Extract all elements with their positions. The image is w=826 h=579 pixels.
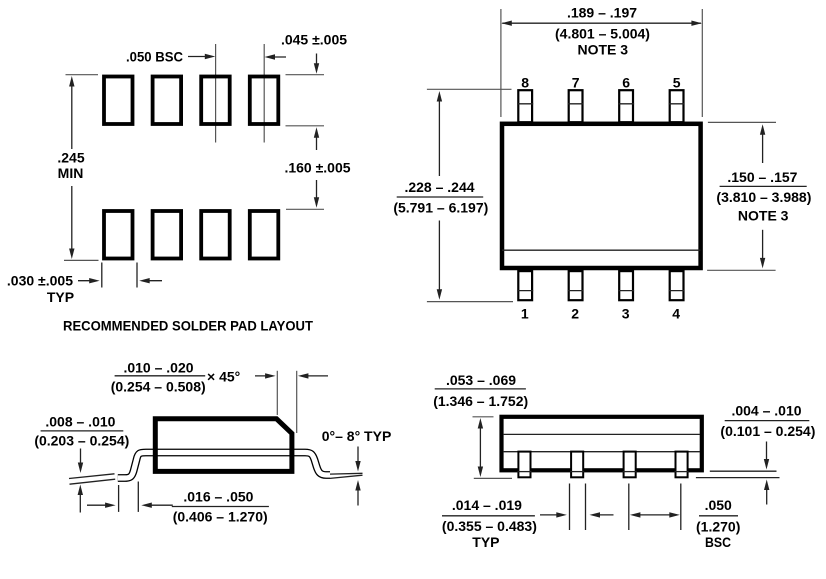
tick line pin4 center [680, 484, 682, 531]
dim arrow .050 BSC right [188, 56, 212, 58]
package body top view [502, 124, 701, 268]
dim line .228 lower with down arrow [438, 221, 440, 292]
extension line .053 bottom seating plane [474, 477, 512, 479]
svg-text:2: 2 [571, 306, 579, 322]
svg-text:.008 – .010: .008 – .010 [45, 413, 115, 429]
pin 4 bottom lead [670, 271, 684, 300]
pin 2 bottom lead [569, 271, 583, 300]
pin 4 front lead [675, 452, 689, 478]
pin 6 top lead [619, 90, 633, 122]
svg-text:(3.810 – 3.988): (3.810 – 3.988) [716, 189, 811, 205]
fraction bar .004 [725, 420, 810, 422]
svg-text:(5.791 – 6.197): (5.791 – 6.197) [393, 199, 488, 215]
svg-text:.228 – .244: .228 – .244 [404, 179, 474, 195]
right foot wedge top line [330, 472, 363, 475]
dim arrow .016 left-pointing [145, 504, 173, 506]
svg-text:TYP: TYP [472, 534, 499, 550]
dim arrow chamfer right-pointing [255, 375, 273, 377]
tick line pad1 left [101, 263, 103, 288]
fraction bar .053 [435, 388, 526, 390]
svg-text:.014 – .019: .014 – .019 [452, 497, 522, 513]
svg-text:1: 1 [521, 306, 529, 322]
tick line pin2 right [585, 484, 587, 531]
dim line .189 with arrows both ends [502, 22, 701, 24]
dim line .150 lower with down arrow [762, 230, 764, 261]
dim arrow .160 down [316, 180, 318, 205]
standoff line upper right [710, 470, 777, 472]
tick line foot right [137, 482, 139, 512]
svg-text:.150 – .157: .150 – .157 [727, 169, 797, 185]
tick line foot left [118, 485, 120, 512]
solder pad top row 1 [104, 77, 133, 125]
extension line bottom pad4 top edge [286, 208, 324, 210]
extension line .228 bottom [427, 301, 513, 303]
dim arrow .030 right [78, 280, 97, 282]
extension line .150 bottom [707, 269, 776, 271]
dim arrow .030 left [143, 280, 163, 282]
fraction bar .228 [397, 196, 484, 198]
fraction bar .014 [442, 515, 535, 517]
fraction bar .016 [172, 506, 269, 508]
dim arrow .045 down [316, 54, 318, 71]
solder pad top row 4 [250, 77, 278, 125]
extension line body right for .189 dim [701, 9, 703, 117]
svg-text:× 45°: × 45° [207, 369, 240, 385]
solder pad top row 2 [153, 77, 182, 125]
pin 7 top lead [569, 90, 583, 122]
svg-text:MIN: MIN [58, 165, 84, 181]
svg-text:.245: .245 [57, 150, 84, 166]
svg-text:(0.355 – 0.483): (0.355 – 0.483) [442, 518, 537, 534]
svg-text:(0.203 – 0.254): (0.203 – 0.254) [34, 433, 129, 449]
extension line chamfer left [276, 371, 278, 415]
svg-text:5: 5 [673, 75, 681, 91]
svg-text:(0.101 – 0.254): (0.101 – 0.254) [720, 423, 815, 439]
svg-text:(4.801 – 5.004): (4.801 – 5.004) [555, 26, 650, 42]
dim line .245 lower with down arrow [71, 186, 73, 251]
svg-text:.160 ±.005: .160 ±.005 [284, 160, 350, 176]
fraction bar .010 [115, 375, 206, 377]
extension line .245 bottom [64, 259, 99, 261]
dim arrow .050 BSC left [268, 56, 287, 58]
pin 5 top lead [670, 90, 684, 122]
svg-text:(1.346 – 1.752): (1.346 – 1.752) [433, 393, 528, 409]
dim line .228 upper with up arrow [437, 91, 442, 102]
svg-text:.030 ±.005: .030 ±.005 [7, 273, 73, 289]
tick line pad1 right [136, 263, 138, 288]
svg-text:7: 7 [572, 75, 580, 91]
dim arrow .008 up [79, 492, 81, 513]
body inner line 2 [503, 451, 700, 453]
svg-text:.050: .050 [705, 497, 732, 513]
package body side view outline with chamfer [155, 419, 292, 472]
standoff line lower right (seating plane) [696, 477, 780, 479]
extension line .053 top [473, 416, 494, 418]
svg-text:4: 4 [672, 306, 680, 322]
svg-text:.045 ±.005: .045 ±.005 [281, 32, 347, 48]
body inner line near bottom [502, 249, 700, 251]
extension line .228 top [427, 88, 512, 90]
pin 8 top lead [518, 90, 532, 122]
pin 1 front lead [517, 452, 531, 478]
dim arrow .014 left-pointing [593, 514, 614, 516]
solder pad bottom row 1 [104, 211, 133, 259]
svg-text:.189 – .197: .189 – .197 [567, 5, 637, 21]
dim arrow .160 up [316, 131, 318, 151]
dim line .150 upper with up arrow [760, 124, 765, 135]
svg-text:RECOMMENDED SOLDER PAD LAYOUT: RECOMMENDED SOLDER PAD LAYOUT [63, 318, 313, 334]
dim arrow .008 down [80, 449, 82, 465]
dim arrow .004 down [766, 442, 768, 463]
pin 3 bottom lead [619, 271, 633, 300]
centerline pad4 [263, 44, 265, 143]
svg-text:0°– 8° TYP: 0°– 8° TYP [322, 428, 392, 444]
pin 2 front lead [570, 452, 584, 478]
svg-text:(0.406 – 1.270): (0.406 – 1.270) [173, 509, 268, 525]
svg-text:.050 BSC: .050 BSC [126, 49, 183, 65]
svg-text:.004 – .010: .004 – .010 [731, 402, 801, 418]
dim arrow .016 right-pointing [87, 504, 113, 506]
tick line pin3 center [628, 484, 630, 531]
svg-text:.016 – .050: .016 – .050 [183, 489, 253, 505]
solder pad bottom row 4 [250, 211, 278, 259]
right foot wedge bottom line [330, 475, 363, 478]
svg-text:.010 – .020: .010 – .020 [123, 359, 193, 375]
dim arrow 0-8 down [357, 447, 359, 465]
dim arrow 0-8 up [357, 488, 359, 506]
extension line pad4 bottom edge [286, 125, 325, 127]
svg-text:6: 6 [622, 75, 630, 91]
svg-text:NOTE 3: NOTE 3 [738, 208, 789, 224]
pin 1 bottom lead [518, 271, 532, 300]
extension line .150 top [708, 121, 776, 123]
svg-text:TYP: TYP [47, 289, 74, 305]
extension line pad4 top edge [286, 74, 325, 76]
left foot wedge bottom line [70, 479, 116, 484]
centerline pad3 [215, 44, 217, 143]
solder pad top row 3 [201, 77, 230, 125]
solder pad bottom row 2 [153, 211, 182, 259]
left foot wedge top line [69, 474, 115, 479]
package body front view [502, 417, 702, 471]
fraction bar .150 [720, 185, 807, 187]
extension line .245 top [66, 74, 99, 76]
svg-text:(0.254 – 0.508): (0.254 – 0.508) [111, 379, 206, 395]
fraction bar .008 [41, 430, 124, 432]
extension line chamfer right [296, 371, 298, 433]
tick line pin2 left [569, 484, 571, 531]
lead S-bend outline (white over-stroke) [118, 453, 330, 479]
dim arrow .004 up [766, 487, 768, 505]
dim double arrow .050 pitch [633, 514, 678, 516]
dim arrow chamfer left-pointing [301, 375, 328, 377]
svg-text:BSC: BSC [705, 534, 731, 550]
svg-text:.053 – .069: .053 – .069 [446, 372, 516, 388]
body inner line 1 [503, 433, 700, 435]
dim arrow .014 right-pointing [540, 514, 564, 516]
dim line .245 upper with up arrow [69, 76, 74, 87]
svg-text:NOTE 3: NOTE 3 [578, 42, 629, 58]
fraction bar .050 [699, 515, 738, 517]
dim line .053 with up and down arrows [478, 418, 483, 429]
svg-text:3: 3 [622, 306, 630, 322]
pin 3 front lead [623, 452, 637, 478]
lead S-bend outline (black under-stroke) [118, 453, 330, 479]
svg-text:(1.270): (1.270) [696, 519, 740, 535]
solder pad bottom row 3 [201, 211, 230, 259]
extension line body left for .189 dim [500, 9, 502, 117]
svg-text:8: 8 [521, 75, 529, 91]
